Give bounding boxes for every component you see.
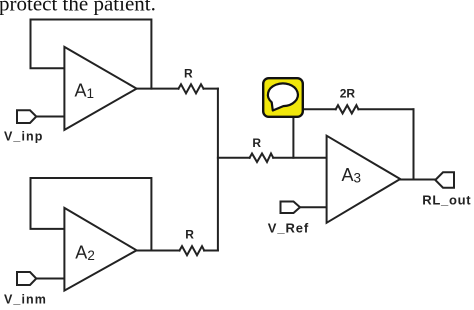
svg-text:V_inm: V_inm	[4, 293, 47, 307]
svg-text:R: R	[252, 136, 261, 150]
svg-text:2R: 2R	[340, 87, 356, 101]
svg-text:R: R	[184, 66, 193, 80]
svg-text:RL_out: RL_out	[422, 192, 471, 207]
svg-text:protect the patient.: protect the patient.	[0, 0, 156, 16]
svg-text:V_inp: V_inp	[4, 130, 44, 144]
svg-text:R: R	[185, 227, 194, 241]
svg-text:V_Ref: V_Ref	[268, 221, 309, 236]
